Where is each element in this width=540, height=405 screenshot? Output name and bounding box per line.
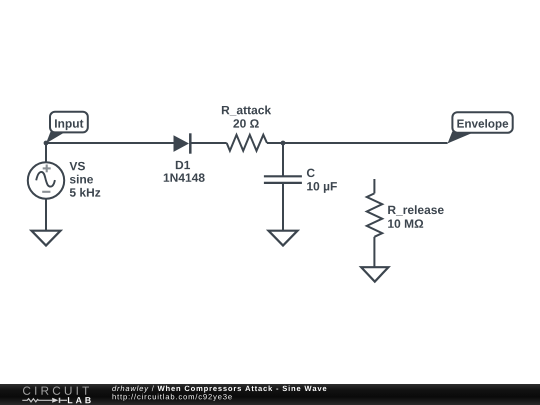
node junction dot at capacitor tap xyxy=(281,141,286,146)
wire capacitor vertical segments xyxy=(282,143,284,230)
capacitor C plates xyxy=(264,176,302,183)
wire R_release stubs xyxy=(373,179,375,267)
label VS name and value xyxy=(69,162,100,197)
label D1 name and part number xyxy=(164,161,205,182)
footer bar xyxy=(0,384,540,405)
resistor R_attack zigzag xyxy=(227,135,267,151)
ground below VS xyxy=(32,231,61,246)
label C name and value xyxy=(307,169,337,193)
node Input junction dot xyxy=(44,141,49,146)
ground below capacitor xyxy=(269,231,298,246)
credit line author and title xyxy=(112,385,326,392)
diode D1 symbol xyxy=(174,133,191,153)
flag Envelope xyxy=(448,112,513,143)
label R_release name and value xyxy=(388,205,444,228)
voltage source VS sine xyxy=(28,162,64,198)
logo LAB wordmark xyxy=(68,397,91,403)
logo resistor zigzag xyxy=(22,399,52,402)
logo CIRCUIT wordmark xyxy=(23,387,89,395)
ground below R_release xyxy=(361,267,388,281)
resistor R_release vertical zigzag xyxy=(367,193,382,236)
wire main horizontal net from Input node to Envelope xyxy=(46,142,448,144)
wire VS vertical segments xyxy=(45,143,47,230)
label R_attack name and value xyxy=(222,106,271,128)
credit line url xyxy=(113,394,232,401)
logo diode xyxy=(52,398,67,403)
flag Input xyxy=(46,112,88,144)
